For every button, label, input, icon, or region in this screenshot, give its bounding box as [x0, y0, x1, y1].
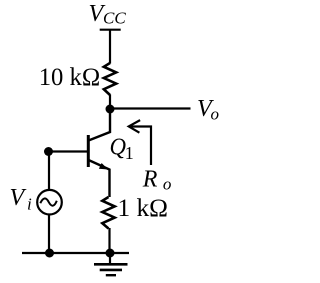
ground bar 3 [106, 274, 116, 276]
label Q1 [110, 134, 134, 163]
wire R2 to ground node [108, 228, 110, 253]
transistor Q1 collector lead [89, 109, 111, 141]
bottom wire [22, 252, 129, 254]
resistor R1 10k zigzag [104, 63, 116, 95]
transistor Q1 emitter lead [89, 160, 110, 197]
svg-text:o: o [211, 105, 220, 124]
label Vo [197, 96, 219, 124]
svg-text:o: o [163, 175, 172, 194]
Ro pointer arrow [129, 120, 151, 165]
ground bar 1 [94, 263, 128, 266]
wire R1 to node [109, 95, 111, 110]
label Ro [142, 166, 172, 193]
label VCC [89, 1, 127, 28]
transistor Q1 emitter arrowhead [99, 163, 108, 170]
wire source to bottom node [48, 214, 50, 254]
base wire [49, 150, 90, 152]
node ground junction dot [106, 249, 115, 258]
ground stub [109, 253, 111, 264]
svg-text:10 kΩ: 10 kΩ [39, 64, 100, 91]
wire input node to source [48, 152, 50, 192]
node input top dot [44, 147, 53, 156]
node collector/output junction dot [106, 105, 115, 114]
VCC supply T-bar [100, 29, 121, 31]
resistor R2 1k zigzag [102, 197, 114, 229]
ground bar 2 [100, 269, 122, 272]
node source bottom dot [45, 249, 54, 258]
source Vi circle [37, 190, 62, 215]
svg-text:Q: Q [110, 134, 127, 160]
wire VCC to R1 [109, 30, 111, 64]
label Vi [10, 185, 33, 213]
transistor Q1 base bar [87, 135, 90, 167]
source Vi sine symbol [40, 198, 57, 205]
svg-text:V: V [10, 185, 27, 211]
svg-text:1: 1 [125, 143, 134, 163]
svg-text:1 kΩ: 1 kΩ [118, 195, 169, 222]
svg-text:R: R [142, 166, 158, 192]
wire node to Vo [110, 107, 191, 109]
svg-text:i: i [27, 194, 32, 213]
svg-text:CC: CC [103, 9, 126, 28]
